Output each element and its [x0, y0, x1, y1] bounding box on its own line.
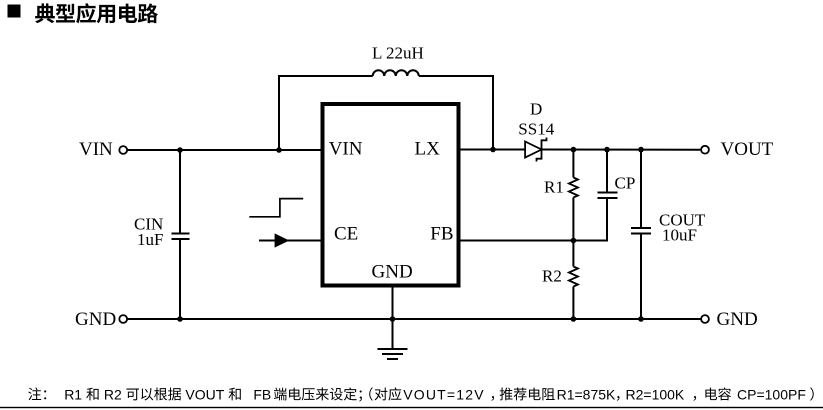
svg-text:R1=875K: R1=875K — [557, 386, 616, 402]
junction LX riser node — [490, 147, 496, 153]
wire diode to VOUT terminal — [542, 149, 702, 151]
svg-text:VOUT=12V: VOUT=12V — [403, 386, 485, 402]
junction GND/R2 — [571, 316, 577, 322]
ground symbol — [378, 348, 408, 350]
bottom rule — [0, 407, 823, 408]
wire CIN top branch — [179, 150, 181, 233]
wire GND rail — [127, 318, 701, 320]
junction GND/COUT — [638, 316, 644, 322]
svg-text:FB: FB — [253, 386, 271, 402]
junction output/R1 — [571, 147, 577, 153]
GND-right terminal circle — [701, 315, 709, 323]
svg-text:CP: CP — [615, 174, 636, 193]
diode D1 triangle — [525, 142, 541, 158]
svg-text:R1: R1 — [544, 178, 564, 197]
section header bullet square — [8, 5, 21, 18]
capacitor CP plates — [598, 192, 618, 194]
svg-text:GND: GND — [717, 309, 758, 330]
VOUT terminal circle — [701, 146, 709, 154]
wire riser to inductor — [279, 76, 373, 150]
junction VIN/inductor riser — [276, 147, 282, 153]
svg-text:CP=100PF: CP=100PF — [737, 386, 806, 402]
svg-text:R2=100K: R2=100K — [626, 386, 685, 402]
resistor R1 zigzag — [569, 178, 578, 198]
GND-left terminal circle — [119, 315, 127, 323]
svg-text:VOUT: VOUT — [185, 386, 224, 402]
wire IC GND pin to ground — [392, 288, 394, 350]
arrowhead into CE pin — [275, 233, 290, 247]
VIN terminal circle — [119, 146, 127, 154]
svg-text:R1: R1 — [64, 386, 82, 402]
wire R2 top — [572, 241, 574, 267]
svg-text:1uF: 1uF — [137, 230, 163, 249]
wire COUT bottom — [640, 234, 642, 319]
wire FB pin to divider — [459, 240, 609, 242]
note text line — [28, 387, 46, 400]
svg-text:VOUT: VOUT — [721, 139, 774, 160]
svg-text:FB: FB — [430, 223, 453, 244]
svg-text:VIN: VIN — [329, 139, 363, 160]
wire R1 bottom — [572, 198, 574, 241]
svg-text:R2: R2 — [104, 386, 122, 402]
wire CP bottom — [606, 199, 608, 240]
wire COUT top — [640, 150, 642, 228]
junction GND/CIN — [177, 316, 183, 322]
junction GND/IC — [390, 316, 396, 322]
section header text 典型应用电路 — [35, 3, 158, 23]
svg-text:D: D — [530, 100, 542, 119]
wire inductor to LX riser — [419, 76, 493, 150]
wire CP top — [606, 150, 608, 193]
wire CE input with arrow — [259, 240, 322, 242]
svg-text:GND: GND — [372, 262, 413, 283]
svg-text:R2: R2 — [542, 267, 562, 286]
svg-text:LX: LX — [415, 139, 441, 160]
wire LX pin to diode — [459, 149, 525, 151]
junction VIN/CIN — [177, 147, 183, 153]
wire CIN bottom branch — [179, 240, 181, 320]
junction output/CP — [604, 147, 610, 153]
svg-text:L 22uH: L 22uH — [372, 44, 424, 63]
junction output/COUT — [638, 147, 644, 153]
capacitor CIN plates — [172, 233, 190, 235]
inductor L1 humps — [373, 70, 419, 76]
svg-text:SS14: SS14 — [518, 120, 554, 139]
svg-text:CE: CE — [334, 223, 358, 244]
junction FB/R1/R2 — [571, 238, 577, 244]
step waveform symbol at CE input — [249, 199, 303, 217]
wire VIN rail to IC VIN pin — [127, 149, 322, 151]
diode D1 schottky cathode bar — [537, 138, 547, 162]
svg-text:10uF: 10uF — [662, 226, 697, 245]
capacitor COUT plates — [631, 227, 651, 229]
svg-text:VIN: VIN — [79, 139, 113, 160]
resistor R2 zigzag — [569, 267, 578, 287]
wire R2 bottom — [572, 287, 574, 320]
wire R1 top — [572, 150, 574, 178]
op-amp U1 IC body — [323, 104, 459, 286]
svg-text:GND: GND — [75, 309, 116, 330]
